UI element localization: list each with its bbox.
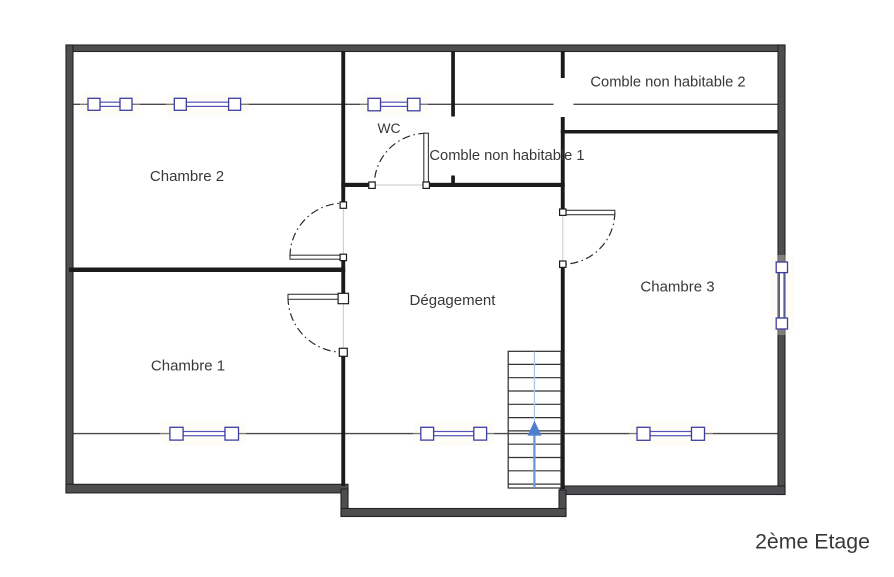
window halo W7 — [413, 421, 494, 446]
interior wall V2 stub — [451, 176, 455, 188]
door leaf chambre1 — [288, 294, 339, 299]
interior wall H3 (comble2 bottom) — [561, 130, 778, 134]
svg-text:WC: WC — [378, 121, 401, 136]
door arc chambre1 — [288, 297, 343, 352]
opening line door chambre1 — [342, 300, 344, 350]
window W8 (chambre3 bottom) — [637, 427, 705, 440]
outer wall bottom right part — [560, 486, 785, 495]
window halo W8 — [629, 421, 713, 446]
door post chambre1 bottom — [339, 348, 347, 356]
stairs arrow stem — [533, 435, 535, 488]
stairs steps — [508, 364, 561, 484]
interior wall V1 upper (chambre2 / WC) — [341, 51, 345, 205]
door post chambre2 top — [340, 202, 346, 208]
porch wall bottom — [341, 509, 566, 517]
sill line across stairs — [508, 433, 561, 435]
door post chambre3 bottom — [560, 261, 566, 267]
window W5 (chambre3 right wall, vertical) — [776, 262, 787, 329]
interior wall H2 right (comble1 bottom) — [426, 183, 565, 187]
window W3 (wc) — [368, 98, 420, 111]
window halo W1 — [80, 92, 140, 117]
door post wc hinge — [423, 182, 429, 188]
interior wall V2 (WC / comble1) — [451, 51, 455, 117]
outer wall right — [778, 45, 785, 495]
door post chambre2 hinge — [340, 254, 346, 260]
door leaf chambre2 — [290, 255, 341, 259]
outer wall bottom left part — [66, 484, 348, 493]
opening line door chambre2 — [342, 206, 344, 255]
sill line top — [73, 103, 778, 105]
window halo W6 — [160, 421, 246, 446]
stairs guide line — [533, 352, 535, 489]
svg-text:2ème Etage: 2ème Etage — [755, 530, 870, 554]
outer wall top — [66, 45, 785, 52]
interior wall V3 lower (chambre3 / stairs) — [561, 267, 565, 489]
door leaf chambre3 — [566, 210, 615, 214]
interior wall H1 (chambre1 / chambre2 divider) — [69, 268, 345, 273]
window W7 (degagement bottom) — [421, 427, 487, 440]
door arc wc — [374, 133, 426, 185]
window W1 — [88, 98, 132, 110]
window W6 (chambre1 bottom) — [170, 427, 239, 440]
sill line bottom — [73, 433, 778, 435]
svg-text:Chambre 2: Chambre 2 — [150, 168, 224, 185]
svg-text:Chambre 1: Chambre 1 — [151, 358, 225, 375]
svg-text:Chambre 3: Chambre 3 — [640, 279, 714, 296]
interior wall V3 middle (comble2 side) — [561, 117, 565, 209]
interior wall V3 top stub — [561, 51, 565, 78]
porch wall left — [341, 489, 348, 516]
door post chambre3 hinge — [560, 209, 566, 215]
outer wall left — [66, 45, 73, 493]
svg-text:Comble non habitable 2: Comble non habitable 2 — [590, 75, 745, 91]
door leaf wc — [424, 133, 429, 182]
porch wall right — [559, 490, 566, 516]
door arc chambre3 — [563, 212, 615, 264]
window halo W2 — [166, 92, 249, 117]
door post wc left — [369, 182, 375, 188]
stairs outline — [508, 351, 561, 488]
window W2 — [174, 98, 240, 110]
interior wall V1 middle — [341, 261, 345, 294]
interior wall V1 lower (chambre1 / degagement) — [341, 356, 345, 487]
window halo W3 — [360, 92, 428, 117]
door post chambre1 hinge — [338, 293, 348, 303]
window halo W5 — [770, 255, 794, 335]
opening line door chambre3 — [562, 214, 564, 262]
interior wall H2 left (WC bottom) — [341, 183, 371, 187]
svg-text:Dégagement: Dégagement — [410, 292, 497, 309]
door arc chambre2 — [290, 203, 343, 256]
svg-text:Comble non habitable 1: Comble non habitable 1 — [429, 148, 584, 164]
opening line door wc — [373, 184, 425, 186]
stairs arrow head — [528, 421, 542, 436]
